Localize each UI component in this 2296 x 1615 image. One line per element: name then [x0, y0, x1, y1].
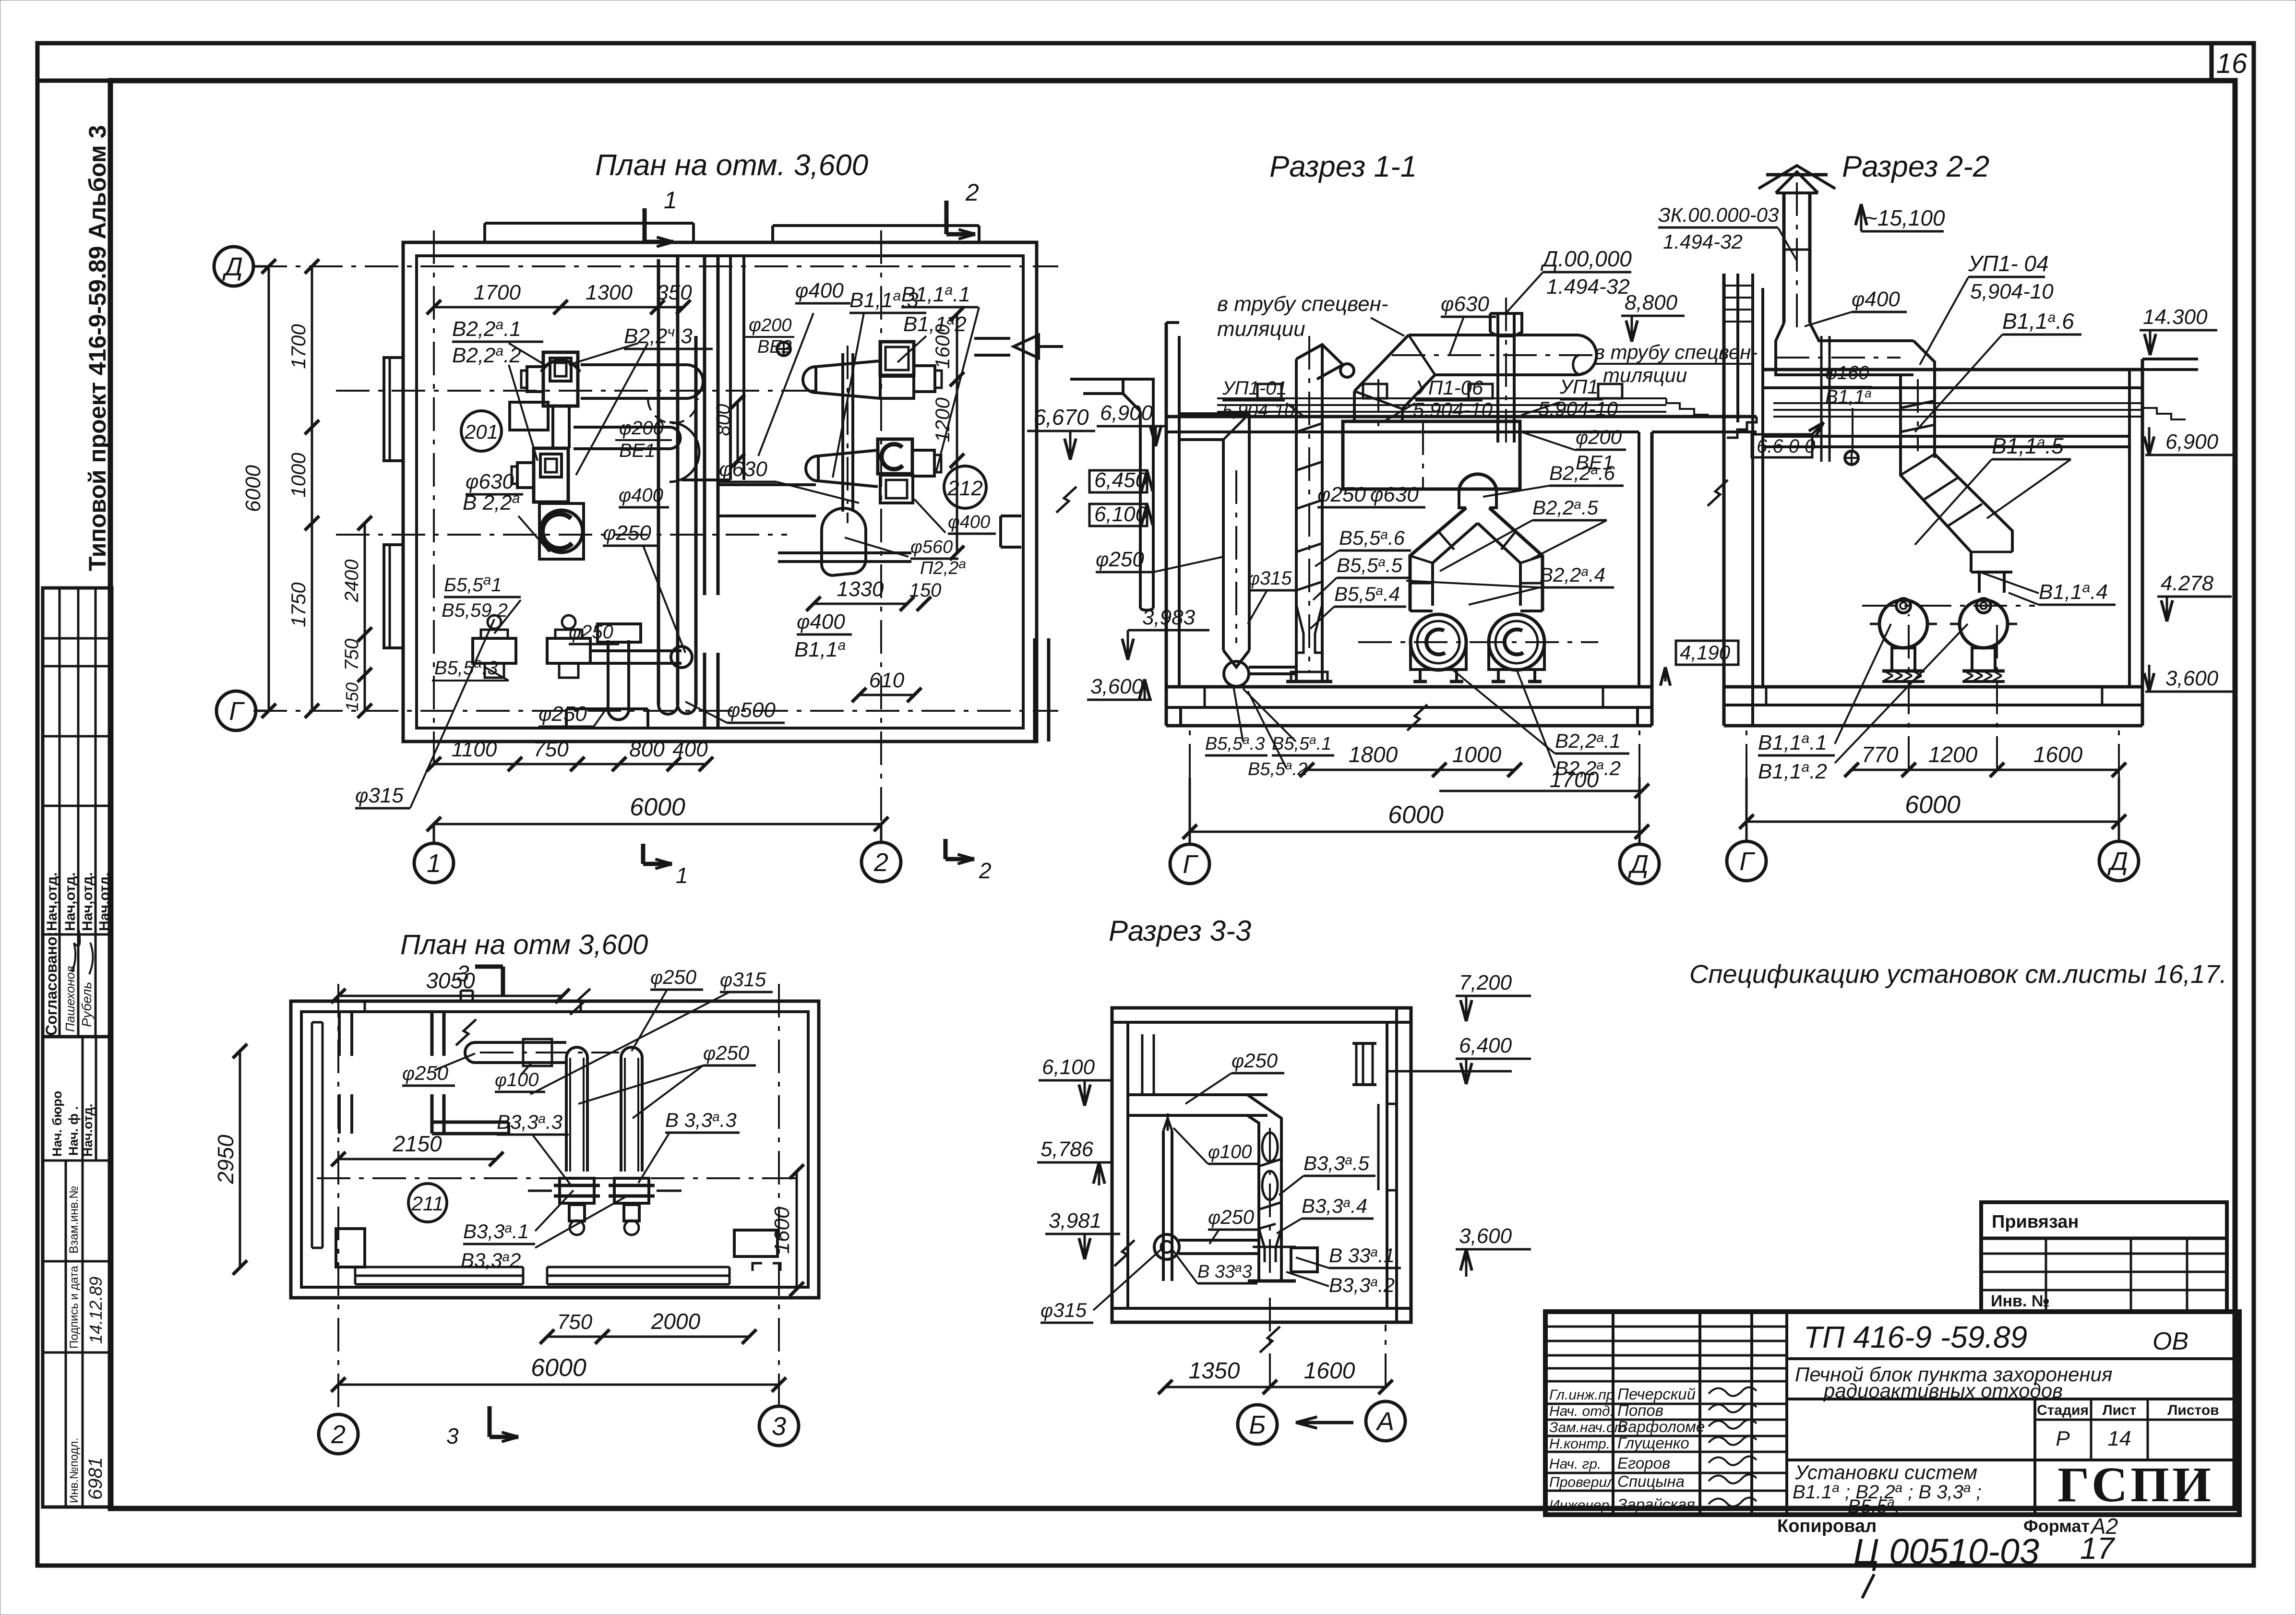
svg-text:6,670: 6,670: [1033, 405, 1089, 430]
svg-text:План на отм. 3,600: План на отм. 3,600: [595, 149, 868, 182]
svg-text:750: 750: [557, 1310, 593, 1334]
svg-text:211: 211: [411, 1192, 444, 1215]
sheet number box 16: [2210, 43, 2214, 81]
svg-text:ЗК.00.000-03: ЗК.00.000-03: [1658, 203, 1779, 226]
svg-text:В2,2а.1: В2,2а.1: [1555, 730, 1621, 752]
svg-text:1600: 1600: [2033, 742, 2083, 767]
svg-text:Д: Д: [2107, 847, 2128, 876]
svg-text:1000: 1000: [1452, 742, 1502, 767]
svg-text:φ200: φ200: [619, 418, 664, 439]
svg-text:150: 150: [909, 580, 942, 601]
svg-text:φ250: φ250: [1208, 1206, 1255, 1228]
svg-text:В3,3а.5: В3,3а.5: [1303, 1152, 1370, 1174]
section 1-1: dimensions bottom: [1307, 769, 1515, 771]
svg-text:План на отм 3,600: План на отм 3,600: [400, 929, 648, 960]
svg-text:Г: Г: [229, 697, 245, 726]
svg-text:Инженер: Инженер: [1549, 1497, 1609, 1513]
svg-text:Г: Г: [1183, 850, 1198, 879]
plan 3.600 lower: building walls: [291, 1001, 819, 1298]
svg-text:6000: 6000: [630, 793, 685, 821]
svg-text:8,800: 8,800: [1625, 291, 1678, 314]
svg-text:400: 400: [672, 738, 708, 761]
svg-text:Инв. №: Инв. №: [1991, 1292, 2050, 1310]
svg-text:Варфоломе: Варфоломе: [1617, 1418, 1705, 1436]
svg-text:3,600: 3,600: [2165, 667, 2219, 690]
svg-text:6,100: 6,100: [1094, 502, 1148, 526]
svg-text:2150: 2150: [392, 1131, 442, 1156]
svg-text:φ200: φ200: [749, 314, 792, 335]
svg-text:В3,3а.2: В3,3а.2: [1329, 1274, 1395, 1296]
svg-text:φ100: φ100: [1208, 1141, 1252, 1162]
svg-text:В1,1а.4: В1,1а.4: [2039, 580, 2108, 604]
svg-text:Нач. гр.: Нач. гр.: [1549, 1456, 1601, 1472]
svg-text:7,200: 7,200: [1459, 971, 1512, 994]
svg-text:770: 770: [1862, 742, 1899, 767]
svg-text:φ630: φ630: [466, 470, 514, 493]
svg-text:φ250: φ250: [603, 521, 651, 545]
svg-text:1600: 1600: [770, 1207, 794, 1254]
svg-text:150: 150: [342, 682, 362, 711]
svg-text:Нач,отд.: Нач,отд.: [80, 872, 96, 931]
svg-text:φ400: φ400: [619, 485, 663, 506]
svg-text:В2,2а.1: В2,2а.1: [452, 317, 521, 341]
svg-text:1800: 1800: [1349, 742, 1398, 767]
svg-text:В1,1а.6: В1,1а.6: [2002, 309, 2074, 334]
svg-text:В5,5а.5: В5,5а.5: [1337, 554, 1403, 576]
svg-text:ТП 416-9 -59.89: ТП 416-9 -59.89: [1804, 1320, 2027, 1354]
svg-text:Гл.инж.пр: Гл.инж.пр: [1549, 1387, 1614, 1403]
section 2-2: small phi160 stub: [1845, 451, 1858, 465]
plan upper: section cut flags 1 and 2: [643, 208, 647, 242]
section 2-2: fans: [1879, 600, 1927, 648]
svg-text:Проверил: Проверил: [1549, 1474, 1615, 1490]
svg-text:1330: 1330: [837, 577, 884, 601]
svg-text:1: 1: [427, 849, 441, 878]
svg-text:В1,1а.1: В1,1а.1: [901, 282, 970, 306]
svg-text:Инв.№подл.: Инв.№подл.: [68, 1438, 81, 1503]
svg-text:1.494-32: 1.494-32: [1663, 230, 1743, 253]
plan upper: bottom dimension chain: [434, 763, 706, 766]
svg-text:350: 350: [657, 281, 692, 304]
svg-text:4.278: 4.278: [2161, 572, 2214, 595]
svg-text:Нач,отд.: Нач,отд.: [96, 872, 112, 931]
svg-text:В 3,3а.3: В 3,3а.3: [665, 1109, 737, 1131]
svg-text:Привязан: Привязан: [1992, 1212, 2079, 1232]
section 1-1: BE1 vertical stack: [1496, 313, 1499, 443]
svg-text:ОВ: ОВ: [2152, 1328, 2188, 1355]
svg-text:Взам.инв.№: Взам.инв.№: [67, 1186, 81, 1254]
svg-text:Пашехонов: Пашехонов: [63, 966, 77, 1032]
svg-text:1200: 1200: [1928, 742, 1978, 767]
svg-text:6,100: 6,100: [1042, 1055, 1095, 1079]
svg-text:В5,5а.2: В5,5а.2: [1248, 758, 1307, 779]
svg-text:2950: 2950: [213, 1135, 238, 1184]
svg-text:φ250: φ250: [402, 1062, 449, 1084]
svg-text:3,600: 3,600: [1459, 1224, 1512, 1248]
svg-text:201: 201: [464, 420, 498, 443]
plan upper: ducts room 201: [581, 363, 686, 366]
svg-text:Нач. бюро: Нач. бюро: [50, 1091, 64, 1157]
svg-text:Глущенко: Глущенко: [1617, 1434, 1689, 1452]
svg-text:14: 14: [2108, 1427, 2131, 1450]
sidebar table B: [43, 1037, 112, 1507]
svg-text:φ100: φ100: [495, 1069, 539, 1090]
section 1-1: elevation right 4.190: [1676, 641, 1738, 665]
svg-text:1.494-32: 1.494-32: [1546, 275, 1630, 299]
plan upper: right-side dimension chain: [956, 314, 958, 553]
svg-text:Зарайская: Зарайская: [1617, 1495, 1695, 1513]
svg-text:φ560: φ560: [910, 537, 953, 557]
plan upper: grid bubbles: [214, 247, 253, 286]
plan upper: room number circles: [461, 411, 502, 451]
svg-text:6981: 6981: [85, 1457, 106, 1500]
plan upper: left dimension chains: [268, 266, 270, 711]
section 1-1: plenum chamber box: [1343, 421, 1520, 489]
svg-text:Нач. отд.: Нач. отд.: [1549, 1403, 1614, 1419]
svg-text:В2,2а.4: В2,2а.4: [1540, 563, 1605, 586]
svg-text:Попов: Попов: [1617, 1401, 1663, 1419]
svg-text:6,900: 6,900: [2165, 430, 2219, 454]
svg-text:1700: 1700: [287, 324, 310, 369]
svg-text:Печерский: Печерский: [1617, 1385, 1696, 1403]
svg-text:В5,5а.1: В5,5а.1: [1272, 732, 1331, 754]
svg-text:Нач. ф .: Нач. ф .: [66, 1106, 81, 1156]
plan lower: axes: [337, 984, 339, 1411]
svg-text:Разрез 3-3: Разрез 3-3: [1109, 915, 1251, 947]
svg-text:5,786: 5,786: [1040, 1137, 1094, 1161]
svg-text:3,983: 3,983: [1142, 606, 1196, 629]
svg-text:ВЕ2: ВЕ2: [757, 337, 792, 357]
svg-text:2000: 2000: [651, 1309, 701, 1334]
main title block: [1545, 1312, 2239, 1515]
svg-text:3: 3: [446, 1424, 459, 1448]
top band separator: [37, 79, 110, 83]
plan lower: dimensions: [338, 995, 562, 997]
svg-text:6000: 6000: [1905, 791, 1961, 819]
svg-text:6.6 0 0: 6.6 0 0: [1757, 436, 1815, 457]
svg-text:φ400: φ400: [797, 610, 845, 634]
svg-text:В2,2а.2: В2,2а.2: [452, 343, 521, 367]
svg-text:φ315: φ315: [355, 784, 404, 807]
svg-text:3,600: 3,600: [1090, 675, 1144, 698]
wall break zigzag marks: [1056, 487, 1076, 513]
svg-text:радиоактивных отходов: радиоактивных отходов: [1823, 1379, 2063, 1402]
svg-text:В5,5а.4: В5,5а.4: [1334, 583, 1400, 605]
svg-text:В2,2а.2: В2,2а.2: [1555, 757, 1621, 779]
section 1-1: building outline: [1165, 323, 1168, 726]
svg-text:В1,1а2: В1,1а2: [903, 312, 967, 336]
svg-text:Г: Г: [1739, 847, 1755, 876]
svg-text:5,904-10: 5,904-10: [1970, 280, 2054, 303]
svg-text:6000: 6000: [531, 1354, 586, 1382]
svg-text:2400: 2400: [341, 560, 362, 603]
svg-text:1: 1: [676, 863, 688, 888]
svg-text:Ц 00510-03: Ц 00510-03: [1854, 1531, 2039, 1571]
svg-text:φ400: φ400: [1852, 287, 1900, 311]
svg-text:УП1-06: УП1-06: [1415, 376, 1483, 399]
svg-text:1700: 1700: [474, 281, 521, 304]
section 1-1: wide duct elbow and horizontal phi630 duct: [1353, 391, 1356, 421]
svg-text:1000: 1000: [287, 453, 310, 498]
plan upper: top dimension chain: [434, 306, 683, 309]
svg-text:Типовой проект 416-9-59.89 Аль: Типовой проект 416-9-59.89 Альбом 3: [84, 125, 111, 571]
plan upper: fan units B2.2 room 201: [541, 360, 580, 372]
svg-text:Р: Р: [2056, 1427, 2070, 1450]
svg-text:φ250: φ250: [703, 1041, 750, 1064]
svg-text:В 33а.1: В 33а.1: [1329, 1244, 1395, 1267]
svg-text:УП1-01: УП1-01: [1222, 378, 1287, 399]
svg-text:УП1- 04: УП1- 04: [1968, 251, 2049, 276]
svg-text:Д: Д: [1628, 850, 1649, 879]
svg-text:610: 610: [869, 669, 905, 692]
svg-text:φ630: φ630: [1370, 483, 1419, 506]
plan upper: axis dash-dot lines: [253, 265, 1058, 267]
section 1-1: left phi250 riser with elbows: [1222, 440, 1225, 650]
section 3-3: ducts: [1154, 1093, 1247, 1096]
svg-text:φ630: φ630: [719, 457, 767, 481]
svg-text:В1,1а: В1,1а: [1825, 386, 1872, 407]
svg-text:Д.00,000: Д.00,000: [1540, 246, 1632, 271]
svg-text:3: 3: [457, 961, 469, 986]
svg-text:1350: 1350: [1189, 1358, 1240, 1384]
svg-text:1750: 1750: [287, 582, 310, 627]
svg-text:Подпись и дата: Подпись и дата: [68, 1266, 81, 1349]
svg-text:6,900: 6,900: [1100, 401, 1153, 425]
svg-text:3,981: 3,981: [1049, 1209, 1101, 1232]
svg-text:5.904-10: 5.904-10: [1413, 398, 1493, 421]
svg-text:17: 17: [2080, 1531, 2116, 1566]
svg-text:в трубу спецвен-: в трубу спецвен-: [1594, 341, 1758, 363]
svg-text:ВЕ1: ВЕ1: [619, 440, 656, 461]
svg-text:φ250: φ250: [1317, 483, 1366, 506]
svg-text:В5,5а.6: В5,5а.6: [1339, 526, 1405, 549]
svg-text:212: 212: [947, 477, 982, 500]
svg-text:16: 16: [2216, 48, 2248, 79]
plan upper: pump cluster B5.5: [473, 638, 516, 663]
section 2-2: building outline: [1722, 274, 1726, 726]
svg-text:φ630: φ630: [1441, 292, 1489, 316]
section 1-1: central B5.5 riser duct: [1295, 359, 1298, 682]
svg-text:φ400: φ400: [795, 279, 844, 302]
svg-text:В1,1а.5: В1,1а.5: [1992, 433, 2064, 458]
svg-text:750: 750: [533, 738, 569, 761]
svg-text:Б5,5а1: Б5,5а1: [444, 572, 502, 596]
svg-text:Разрез 1-1: Разрез 1-1: [1269, 150, 1417, 183]
plan lower: horizontal duct top-left room: [475, 1041, 566, 1044]
plan upper: right wall lower pilaster: [1033, 638, 1037, 742]
svg-text:φ400: φ400: [948, 512, 990, 532]
svg-text:φ315: φ315: [1040, 1299, 1087, 1321]
svg-text:Нач.отд.: Нач.отд.: [81, 1104, 95, 1157]
section 3-3: dimensions: [1165, 1386, 1386, 1388]
svg-text:А: А: [1375, 1407, 1394, 1436]
section 2-2: duct run: [1776, 323, 1913, 375]
svg-text:Егоров: Егоров: [1617, 1454, 1670, 1472]
svg-text:Зам.нач.от: Зам.нач.от: [1549, 1420, 1626, 1436]
svg-text:φ315: φ315: [720, 968, 766, 991]
svg-text:6,400: 6,400: [1459, 1034, 1512, 1057]
section 3-3: building outline: [1112, 1008, 1411, 1322]
section 2-2: dimensions: [1852, 769, 2119, 771]
section 2-2: grid bubbles: [1727, 841, 1766, 881]
svg-text:В2,2а.5: В2,2а.5: [1532, 496, 1599, 519]
svg-text:В2,2а.6: В2,2а.6: [1549, 462, 1615, 484]
svg-text:Лист: Лист: [2103, 1402, 2137, 1418]
plan upper: room 212 equipment: [880, 342, 914, 375]
svg-text:6000: 6000: [1388, 801, 1444, 829]
plan lower: room number 211: [408, 1184, 447, 1222]
svg-text:В3,3а.4: В3,3а.4: [1302, 1195, 1367, 1217]
svg-text:1100: 1100: [452, 738, 497, 761]
svg-text:Установки систем: Установки систем: [1794, 1461, 1977, 1483]
svg-text:750: 750: [341, 639, 362, 671]
svg-text:φ500: φ500: [727, 698, 776, 722]
svg-text:φ315: φ315: [1248, 568, 1292, 589]
svg-text:5,904-10: 5,904-10: [1222, 401, 1294, 421]
svg-text:6,450: 6,450: [1094, 468, 1148, 492]
svg-text:φ250: φ250: [1232, 1049, 1278, 1072]
svg-text:В5,5а.3: В5,5а.3: [434, 655, 498, 679]
section 1-1: left exterior riser duct: [1152, 411, 1155, 609]
svg-text:φ160: φ160: [1825, 362, 1869, 383]
svg-text:В1,1а.1: В1,1а.1: [1758, 730, 1827, 754]
privyazan box: [1981, 1202, 2227, 1312]
svg-text:φ200: φ200: [1576, 426, 1622, 448]
svg-text:В 33а3: В 33а3: [1197, 1260, 1252, 1282]
svg-text:2: 2: [979, 858, 992, 883]
svg-text:1300: 1300: [586, 281, 633, 304]
svg-text:Спицына: Спицына: [1617, 1472, 1685, 1490]
section 2-2: chimney with cap: [1782, 193, 1786, 323]
svg-text:тиляции: тиляции: [1603, 364, 1687, 386]
svg-text:2: 2: [965, 179, 979, 206]
svg-text:φ250: φ250: [569, 622, 613, 643]
svg-text:Б: Б: [1249, 1411, 1266, 1439]
svg-text:Д: Д: [222, 252, 243, 281]
svg-text:1: 1: [664, 187, 677, 214]
svg-text:Согласовано:: Согласовано:: [43, 932, 60, 1036]
svg-text:В5,59.2: В5,59.2: [442, 600, 508, 621]
plan lower: duct pairs: [565, 1058, 568, 1172]
svg-text:14.12.89: 14.12.89: [86, 1277, 106, 1344]
section 1-1: grid bubbles: [1170, 844, 1209, 884]
svg-text:φ250: φ250: [538, 702, 587, 726]
plan lower: grid bubbles: [319, 1414, 358, 1454]
svg-text:Нач,отд.: Нач,отд.: [44, 872, 60, 931]
svg-text:В 2,2а: В 2,2а: [463, 490, 520, 514]
svg-text:14.300: 14.300: [2143, 305, 2208, 329]
section 1-1: UP rails under slab: [1217, 397, 1666, 399]
svg-text:Листов: Листов: [2167, 1402, 2219, 1418]
svg-text:800: 800: [629, 738, 665, 761]
svg-text:φ250: φ250: [650, 966, 697, 988]
svg-text:В3,3а.1: В3,3а.1: [463, 1220, 529, 1243]
svg-text:3: 3: [772, 1412, 786, 1441]
svg-text:Стадия: Стадия: [2037, 1402, 2089, 1418]
svg-text:Разрез 2-2: Разрез 2-2: [1842, 150, 1989, 183]
svg-text:1600: 1600: [1304, 1358, 1355, 1384]
svg-text:В3,3а2: В3,3а2: [461, 1249, 521, 1271]
sidebar table A (Согласовано): [43, 588, 112, 1037]
plan lower: section flags 3: [501, 967, 505, 996]
svg-text:УП1: УП1: [1559, 375, 1599, 398]
svg-text:2: 2: [873, 848, 888, 877]
svg-text:В1,1а.2: В1,1а.2: [1758, 759, 1827, 783]
svg-text:В3,3а.3: В3,3а.3: [497, 1111, 562, 1133]
svg-text:тиляции: тиляции: [1217, 317, 1305, 341]
svg-text:2: 2: [331, 1420, 346, 1449]
svg-text:ГСПИ: ГСПИ: [2057, 1457, 2214, 1512]
svg-text:5.904-10: 5.904-10: [1538, 397, 1618, 420]
plan 3.600 upper: building walls: [403, 242, 1037, 742]
section 1-1: A-frame manifold and fans: [1459, 489, 1466, 508]
svg-text:Рубель: Рубель: [79, 982, 94, 1027]
svg-text:В5,5а.3: В5,5а.3: [1205, 732, 1265, 754]
svg-text:Нач,отд.: Нач,отд.: [62, 872, 78, 931]
svg-text:Н.контр.: Н.контр.: [1549, 1436, 1610, 1452]
svg-text:6000: 6000: [241, 465, 265, 512]
svg-text:в трубу спецвен-: в трубу спецвен-: [1217, 292, 1388, 316]
svg-text:~15,100: ~15,100: [1865, 205, 1945, 230]
section 3-3: view bubbles: [1238, 1405, 1277, 1444]
svg-text:Спецификацию установок см.ли: Спецификацию установок см.листы 16,17.: [1689, 960, 2227, 989]
svg-text:φ250: φ250: [1096, 548, 1144, 571]
